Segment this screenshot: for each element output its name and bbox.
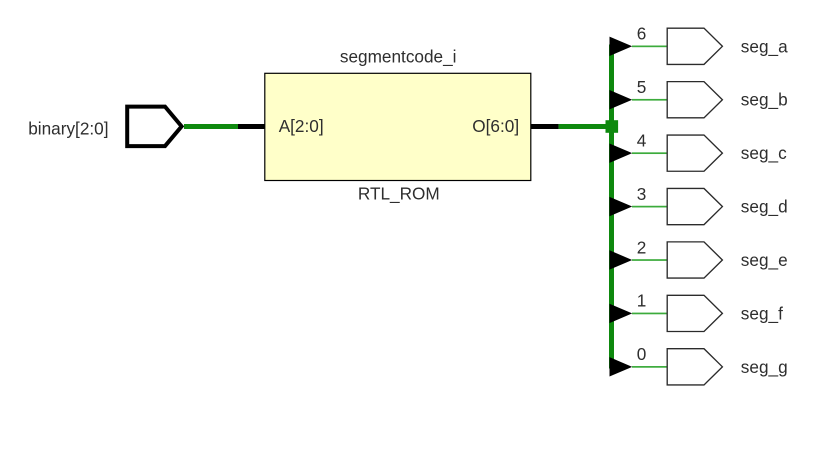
wire bit 5 to seg_b — [632, 99, 667, 101]
bus net O[6:0] (vertical) — [609, 45, 614, 369]
output port seg_a — [667, 28, 722, 64]
svg-text:seg_b: seg_b — [741, 90, 788, 110]
svg-text:6: 6 — [637, 24, 647, 44]
svg-text:binary[2:0]: binary[2:0] — [28, 118, 108, 138]
svg-text:2: 2 — [637, 237, 647, 257]
wire bit 3 to seg_d — [632, 206, 667, 208]
svg-text:4: 4 — [637, 130, 647, 150]
wire bit 1 to seg_f — [632, 313, 667, 315]
output port seg_g — [667, 349, 722, 385]
junction O[6:0] on bus — [606, 120, 619, 133]
wire binary[2:0] to A[2:0] (pin stub, black) — [238, 124, 265, 129]
bus tap bit 4 (triangle) — [610, 143, 633, 162]
svg-text:seg_c: seg_c — [741, 143, 787, 163]
svg-text:seg_g: seg_g — [741, 357, 788, 377]
svg-text:seg_f: seg_f — [741, 303, 783, 323]
bus tap bit 5 (triangle) — [610, 90, 633, 109]
svg-text:5: 5 — [637, 77, 647, 97]
svg-text:3: 3 — [637, 184, 647, 204]
bus tap bit 3 (triangle) — [610, 197, 633, 216]
svg-text:O[6:0]: O[6:0] — [472, 116, 519, 136]
svg-text:seg_d: seg_d — [741, 197, 788, 217]
output port seg_f — [667, 295, 722, 331]
output port seg_d — [667, 188, 722, 224]
bus tap bit 6 (triangle) — [610, 37, 633, 56]
wire O[6:0] to bus (net segment, green) — [559, 124, 612, 129]
wire binary[2:0] to A[2:0] (net segment, green) — [184, 124, 238, 129]
output port seg_b — [667, 82, 722, 118]
svg-text:A[2:0]: A[2:0] — [279, 116, 324, 136]
wire O[6:0] output (pin stub, black) — [531, 124, 559, 129]
svg-text:RTL_ROM: RTL_ROM — [358, 184, 440, 204]
wire bit 0 to seg_g — [632, 366, 667, 368]
svg-text:seg_a: seg_a — [741, 36, 788, 56]
output port seg_e — [667, 242, 722, 278]
svg-text:0: 0 — [637, 344, 647, 364]
ROM segmentcode_i — [265, 73, 531, 180]
wire bit 4 to seg_c — [632, 152, 667, 154]
svg-text:segmentcode_i: segmentcode_i — [340, 47, 457, 67]
wire bit 2 to seg_e — [632, 259, 667, 261]
bus tap bit 1 (triangle) — [610, 304, 633, 323]
bus tap bit 2 (triangle) — [610, 250, 633, 269]
svg-text:seg_e: seg_e — [741, 250, 788, 270]
svg-text:1: 1 — [637, 291, 647, 311]
input port binary[2:0] — [127, 107, 181, 147]
wire bit 6 to seg_a — [632, 46, 667, 48]
bus tap bit 0 (triangle) — [610, 357, 633, 376]
output port seg_c — [667, 135, 722, 171]
